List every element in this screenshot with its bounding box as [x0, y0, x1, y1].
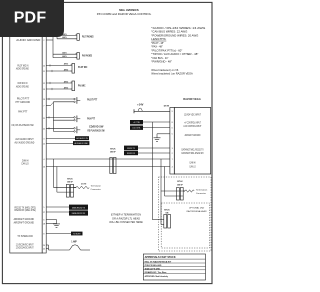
breaker CB1 1 amp [70, 241, 81, 250]
svg-text:120 OHM: 120 OHM [81, 183, 87, 185]
connector J9 termination right [177, 181, 184, 200]
svg-text:DB 9F: DB 9F [177, 184, 183, 186]
svg-text:APPROVED: Matt Liknaitzky: APPROVED: Matt Liknaitzky [145, 275, 169, 278]
svg-text:*CAN BUS - 24": *CAN BUS - 24" [151, 56, 168, 60]
wire pax ptt [46, 116, 73, 118]
wire lcd control [143, 127, 170, 129]
wire tag pilot mic [64, 63, 69, 72]
svg-text:21: 21 [43, 118, 45, 120]
wire pax ptt ground [53, 119, 73, 121]
svg-text:4: 4 [43, 159, 44, 161]
svg-text:12: 12 [43, 83, 45, 85]
connector J6 MTLK DB 9F mid [110, 148, 116, 173]
svg-text:LENGTHS:: LENGTHS: [151, 37, 166, 41]
wire rs232 rx v6 [46, 211, 69, 213]
svg-text:*AUDIO / RS-232 WIRES: 24 AWG: *AUDIO / RS-232 WIRES: 24 AWG [151, 26, 205, 30]
wire tag marks phones [62, 33, 67, 58]
net label rs232 tx [69, 205, 88, 210]
switch S1 pilot ptt [74, 97, 81, 104]
resistor R2 termination [183, 190, 194, 192]
title MGL AVIONICS [119, 8, 138, 12]
svg-text:1 AMP: 1 AMP [71, 241, 77, 244]
svg-text:8: 8 [43, 233, 44, 235]
net label rs232 rx [69, 210, 88, 215]
label termination connector right [196, 189, 208, 195]
svg-text:10: 10 [43, 65, 45, 67]
svg-text:P/N FS100-005: P/N FS100-005 [145, 265, 163, 267]
wire aux audio in [46, 138, 75, 140]
svg-text:PAX PTT: PAX PTT [87, 116, 95, 120]
svg-text:7: 7 [172, 159, 173, 161]
wire term left stub lo [57, 191, 74, 193]
svg-text:+14V: +14V [137, 103, 144, 106]
svg-text:25: 25 [43, 248, 45, 250]
svg-text:12V/24 VDC INPUT: 12V/24 VDC INPUT [184, 113, 201, 116]
svg-text:Wires bracketed | on V6: Wires bracketed | on V6 [151, 68, 178, 72]
svg-text:*CAN BUS WIRES: 22 AWG: *CAN BUS WIRES: 22 AWG [151, 30, 187, 34]
svg-text:DB 9F: DB 9F [67, 182, 73, 184]
svg-text:2: 2 [43, 40, 44, 42]
svg-text:CAN LO: CAN LO [21, 161, 28, 165]
svg-text:MTLK: MTLK [110, 148, 116, 150]
net label razor rs232 tx [124, 146, 138, 151]
ground GND1 [53, 220, 60, 228]
net label lcd control [130, 126, 143, 130]
wire +v control [143, 121, 170, 123]
wire pax mic lo [46, 88, 72, 90]
svg-text:CAN HI: CAN HI [189, 162, 196, 165]
label pax mic [78, 83, 86, 87]
resistor R1 120 ohm [74, 183, 90, 189]
svg-text:DATA RS232 TX: DATA RS232 TX [72, 206, 86, 209]
svg-text:2: 2 [172, 153, 173, 155]
svg-text:11: 11 [43, 71, 45, 73]
svg-text:9: 9 [172, 111, 173, 113]
svg-text:PAX MIC IN: PAX MIC IN [18, 81, 28, 85]
wire pilot mic hi [46, 64, 72, 66]
svg-text:DB 9F: DB 9F [110, 152, 116, 154]
wire aircraft ground 1 [46, 219, 56, 221]
label terminator connector [91, 185, 102, 191]
svg-text:*TIP/CD / AUX AUDIO / OTHER -: *TIP/CD / AUX AUDIO / OTHER - 48" [151, 52, 198, 56]
svg-text:AWG: AWG [64, 68, 69, 71]
wire razor supply [134, 109, 170, 113]
svg-text:5: 5 [172, 134, 173, 136]
label pax ptt [87, 116, 95, 120]
wire 12v tie [46, 245, 48, 250]
wire ground daisy vertical [52, 35, 54, 57]
svg-text:19: 19 [43, 99, 45, 101]
svg-text:PILOT MIC: PILOT MIC [78, 65, 87, 69]
svg-text:AWG: AWG [64, 63, 69, 66]
svg-text:RS232 TX: RS232 TX [127, 148, 136, 150]
wire pilot mic lo [46, 70, 72, 72]
wire can drop lo [56, 167, 58, 193]
svg-text:Wires bracketed | on RAZOR VEG: Wires bracketed | on RAZOR VEGA [151, 72, 193, 76]
jack J4 pilot mic [71, 63, 75, 73]
svg-text:LCD CTRL: LCD CTRL [132, 128, 140, 130]
jack J3 pax phones [76, 53, 80, 60]
label +14V [137, 103, 144, 106]
dashed box termination option [158, 177, 211, 251]
wire pax phones sleeve [53, 57, 77, 59]
wire right can drop hi [161, 159, 185, 191]
svg-text:AUX AUDIO IN: AUX AUDIO IN [76, 137, 88, 140]
wire rs232 tx v6 [46, 206, 69, 208]
svg-text:6: 6 [172, 127, 173, 129]
svg-text:*PILOT - 48": *PILOT - 48" [151, 41, 164, 45]
svg-text:3: 3 [172, 148, 173, 150]
svg-text:DATA/MCT/MCL RS232 TX: DATA/MCT/MCL RS232 TX [181, 148, 203, 151]
wire razor rs232 rx [138, 152, 170, 154]
wire aux audio gnd [46, 143, 73, 145]
wire ptt ground [46, 102, 73, 106]
svg-text:6: 6 [43, 219, 44, 221]
wire razor ground [157, 133, 170, 135]
wire cd sw ground [53, 130, 73, 132]
svg-text:*PWR/GND - 48": *PWR/GND - 48" [151, 59, 172, 63]
svg-text:MTLK: MTLK [164, 209, 170, 211]
svg-text:TX INTERLOCK: TX INTERLOCK [17, 234, 33, 238]
svg-text:P/N COMM and RAZOR VEGA CONTRO: P/N COMM and RAZOR VEGA CONTROL [97, 12, 152, 16]
wire can drop hi [52, 159, 54, 187]
wire CAN HI [46, 158, 170, 160]
wire tx interlock [46, 233, 71, 235]
svg-text:RS232 RX: RS232 RX [127, 153, 136, 155]
svg-text:DRAWN BY: Tim Raw: DRAWN BY: Tim Raw [145, 271, 167, 274]
svg-text:*PILOT/PAX PTT(s) - 60": *PILOT/PAX PTT(s) - 60" [151, 48, 182, 52]
svg-text:Termination: Termination [196, 189, 208, 192]
svg-text:PAX MIC: PAX MIC [78, 83, 86, 87]
svg-text:*POWER/GROUND WIRES: 20 AWG: *POWER/GROUND WIRES: 20 AWG [151, 33, 198, 37]
svg-text:AWG: AWG [64, 86, 69, 89]
switch S2 pax ptt [74, 116, 81, 123]
svg-text:Terminator: Terminator [91, 185, 102, 188]
svg-text:RS PLAYBACK SW: RS PLAYBACK SW [88, 128, 105, 132]
wire aircraft ground 2 [46, 223, 56, 225]
svg-text:5: 5 [43, 207, 44, 209]
wire tag pax mic [64, 80, 69, 89]
svg-text:MTLK: MTLK [67, 178, 73, 180]
svg-text:PILOT PTT: PILOT PTT [87, 98, 97, 102]
svg-text:17: 17 [43, 212, 45, 214]
svg-text:AIRCRAFT GROUND: AIRCRAFT GROUND [185, 134, 201, 137]
svg-text:PILOT PHONES: PILOT PHONES [82, 35, 94, 39]
svg-text:16: 16 [43, 166, 45, 168]
label cd sw [88, 124, 105, 132]
connector J8 razor vega body [170, 108, 211, 175]
dashed box optional head [161, 203, 209, 248]
svg-text:PTT GROUND: PTT GROUND [15, 100, 30, 104]
connector J1 pin labels [11, 38, 45, 250]
svg-text:AUDIO GROUND: AUDIO GROUND [16, 66, 29, 70]
svg-text:MGL AVIONICS: MGL AVIONICS [119, 8, 138, 12]
net label +v control [130, 120, 143, 124]
svg-text:WILL BE CONNECTED HERE: WILL BE CONNECTED HERE [109, 221, 143, 224]
wire pilot ptt [46, 98, 73, 100]
wire cd sw [46, 127, 73, 129]
svg-text:AWG: AWG [62, 36, 67, 39]
svg-text:4: 4 [172, 166, 173, 168]
svg-text:AWG: AWG [62, 52, 67, 55]
net label razor rs232 rx [124, 151, 138, 156]
page frame [2, 2, 212, 283]
wire optional can drop [161, 191, 164, 225]
wire ptt ground daisy [52, 102, 54, 132]
svg-text:AUX AUDIO GND: AUX AUDIO GND [74, 142, 88, 145]
wire pax mic hi [46, 82, 72, 84]
PDF badge [0, 0, 64, 37]
connector J1 V6 COMM body [10, 33, 46, 253]
label razor vega heading [183, 97, 201, 101]
connector J8 razor labels [172, 111, 204, 168]
wire pin2 audio ground [46, 39, 53, 41]
svg-text:PAX PHONES: PAX PHONES [82, 53, 92, 57]
wire pilot phones tip [53, 34, 77, 36]
svg-text:CAN LO: CAN LO [189, 165, 195, 168]
wire right can drop lo [165, 167, 184, 197]
net label aux audio ground [73, 141, 89, 145]
svg-text:LCD CONTROL INPUT: LCD CONTROL INPUT [184, 125, 202, 128]
connector J7 termination left [66, 178, 73, 197]
net label aux audio input [75, 136, 89, 140]
connector J10 optional head [164, 209, 171, 228]
svg-text:*PAX - 48": *PAX - 48" [151, 45, 163, 49]
wire CAN LO [46, 166, 170, 168]
svg-text:13: 13 [43, 89, 45, 91]
svg-text:24: 24 [43, 245, 45, 247]
svg-text:AUX AUDIO GROUND: AUX AUDIO GROUND [15, 140, 35, 144]
svg-text:DB: DB [166, 213, 169, 215]
svg-text:AIRCRAFT GROUND: AIRCRAFT GROUND [14, 220, 34, 224]
label D9 M [164, 106, 169, 108]
svg-text:SIZE A FS DW: SIZE A FS DW [145, 267, 161, 270]
label pilot mic [78, 65, 87, 69]
jack J5 pax mic [71, 81, 75, 91]
svg-text:AWG: AWG [62, 55, 67, 58]
svg-text:PAX PTT: PAX PTT [18, 110, 28, 114]
label pax phones [82, 53, 92, 57]
notes block [151, 26, 205, 76]
svg-text:DATA RS232 RX: DATA RS232 RX [72, 212, 86, 215]
net label interlock [71, 232, 83, 236]
svg-text:RAZOR VEGA: RAZOR VEGA [183, 97, 201, 101]
svg-text:AWG: AWG [64, 80, 69, 83]
svg-text:22: 22 [43, 128, 45, 130]
svg-text:8: 8 [172, 122, 173, 124]
svg-text:AUDIO GROUND: AUDIO GROUND [16, 85, 29, 89]
wire pax phones tip [53, 53, 77, 55]
wire 12v main [49, 249, 91, 251]
svg-text:TO MUTE: TO MUTE [73, 234, 81, 236]
svg-text:RAZOR/VEGA HEAD: RAZOR/VEGA HEAD [187, 210, 207, 213]
label pilot phones [82, 35, 94, 39]
label pilot ptt [87, 98, 97, 102]
switch S3 cd playback [74, 126, 81, 133]
breaker CB2 [138, 108, 142, 111]
ground GND2 [154, 134, 161, 142]
svg-text:Connector: Connector [91, 188, 101, 191]
title block [143, 254, 205, 280]
label optional head [187, 207, 207, 213]
wire optional supply drop [152, 122, 164, 220]
svg-text:OPTIONAL 2ND: OPTIONAL 2ND [189, 207, 205, 210]
subtitle [97, 12, 152, 16]
svg-text:EITHER A TERMINATION: EITHER A TERMINATION [111, 214, 141, 217]
svg-text:Connector: Connector [196, 192, 206, 195]
jack J2 pilot phones [76, 34, 80, 41]
svg-text:CD, RS PLAYBACK SW: CD, RS PLAYBACK SW [11, 123, 34, 127]
svg-text:+V CTRL: +V CTRL [133, 122, 140, 124]
svg-text:15: 15 [43, 143, 45, 145]
svg-text:3: 3 [43, 138, 44, 140]
svg-text:12VDC/24VDC INPUT: 12VDC/24VDC INPUT [16, 245, 34, 249]
svg-text:7: 7 [43, 105, 44, 107]
svg-text:OR A RAZOR LTL HEAD: OR A RAZOR LTL HEAD [112, 217, 140, 220]
svg-text:PDF: PDF [14, 10, 47, 27]
wire term left stub hi [53, 186, 76, 188]
note either termination [109, 214, 143, 225]
svg-text:18: 18 [43, 223, 45, 225]
svg-text:MTLK: MTLK [177, 181, 183, 183]
svg-text:MGL V6 RAZOR/VEGA KIT: MGL V6 RAZOR/VEGA KIT [145, 260, 172, 263]
svg-text:CD/DVD SW: CD/DVD SW [89, 124, 104, 128]
svg-text:DATA/MCT/MCL RS232 RX: DATA/MCT/MCL RS232 RX [181, 152, 203, 155]
svg-text:RS232 RX (MGL DTE): RS232 RX (MGL DTE) [14, 208, 35, 212]
wire razor rs232 tx [138, 147, 170, 149]
svg-text:D9 M: D9 M [164, 106, 169, 108]
svg-text:AUDIO GROUND: AUDIO GROUND [16, 38, 40, 42]
wire pilot phones sleeve [57, 35, 77, 38]
svg-text:APPROVALS FAST STACK: APPROVALS FAST STACK [145, 256, 176, 259]
